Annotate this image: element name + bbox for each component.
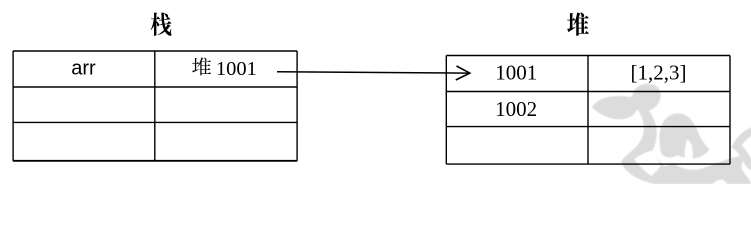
svg-text:1002: 1002 bbox=[495, 97, 537, 121]
svg-text:arr: arr bbox=[71, 58, 96, 80]
watermark leg sweep and bottom mass bbox=[621, 108, 751, 185]
watermark arch mound bbox=[659, 113, 709, 158]
svg-text:[1,2,3]: [1,2,3] bbox=[631, 60, 687, 84]
cell glyph 堆 (in 堆 1001) bbox=[192, 57, 211, 75]
heap table grid (3 rows x 2 cols) bbox=[446, 56, 730, 165]
stack table bottom border (thicker) bbox=[13, 160, 297, 162]
watermark sweep inner notch (white) bbox=[634, 151, 660, 176]
svg-text:1001: 1001 bbox=[216, 58, 257, 80]
arrowhead bbox=[456, 66, 470, 80]
arrow from stack cell to heap row 1001 bbox=[277, 72, 470, 73]
watermark arch inner notch (white) bbox=[685, 140, 693, 163]
watermark bird head + lobe bbox=[592, 84, 661, 120]
watermark right chevron bbox=[737, 132, 751, 167]
watermark calligraphy blob (light gray, behind grid) bbox=[592, 84, 751, 184]
title 栈 (stack) bbox=[151, 12, 172, 35]
stack table grid (3 rows x 2 cols) bbox=[13, 51, 297, 161]
svg-text:1001: 1001 bbox=[495, 60, 537, 84]
title 堆 (heap) bbox=[567, 12, 589, 35]
